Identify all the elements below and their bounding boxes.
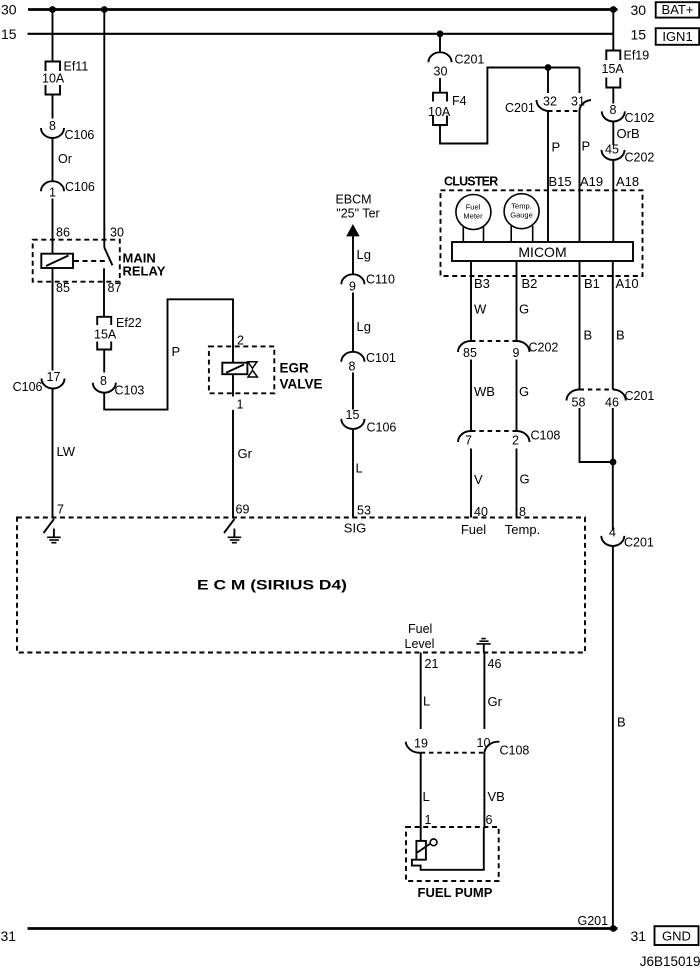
svg-text:10: 10	[477, 736, 491, 750]
svg-text:C110: C110	[366, 273, 395, 287]
svg-text:C101: C101	[366, 351, 396, 365]
svg-text:1: 1	[237, 398, 244, 412]
svg-text:1: 1	[425, 813, 432, 827]
svg-text:A10: A10	[616, 276, 639, 291]
svg-text:G: G	[520, 472, 530, 487]
svg-text:C108: C108	[531, 429, 561, 443]
svg-text:C102: C102	[625, 111, 655, 125]
svg-text:A19: A19	[580, 174, 603, 189]
svg-text:G: G	[519, 384, 529, 399]
svg-text:15: 15	[631, 26, 647, 42]
svg-text:Ef11: Ef11	[64, 60, 89, 74]
svg-text:GND: GND	[662, 929, 691, 944]
svg-text:2: 2	[512, 434, 519, 448]
svg-text:B2: B2	[522, 276, 538, 291]
svg-text:CLUSTER: CLUSTER	[444, 175, 498, 189]
svg-text:30: 30	[1, 2, 17, 18]
svg-text:L: L	[423, 789, 430, 804]
svg-text:B3: B3	[474, 276, 490, 291]
svg-text:10A: 10A	[428, 105, 451, 119]
svg-text:W: W	[474, 302, 487, 317]
svg-text:C103: C103	[115, 384, 145, 398]
svg-text:V: V	[474, 472, 483, 487]
svg-text:45: 45	[605, 143, 619, 157]
svg-text:B: B	[617, 715, 626, 730]
svg-text:C106: C106	[13, 380, 43, 394]
svg-text:P: P	[582, 139, 591, 154]
svg-text:85: 85	[56, 281, 70, 295]
svg-text:C202: C202	[625, 151, 655, 165]
svg-text:1: 1	[49, 186, 56, 200]
svg-text:Gr: Gr	[238, 446, 253, 461]
svg-text:2: 2	[237, 334, 244, 348]
svg-text:FUEL PUMP: FUEL PUMP	[418, 885, 493, 900]
svg-text:EBCM: EBCM	[335, 193, 371, 207]
svg-text:SIG: SIG	[344, 521, 366, 536]
svg-text:21: 21	[425, 657, 439, 671]
svg-text:P: P	[552, 140, 561, 155]
svg-text:86: 86	[56, 226, 70, 240]
svg-text:40: 40	[474, 505, 488, 519]
svg-text:C106: C106	[65, 128, 95, 142]
svg-text:B15: B15	[549, 174, 572, 189]
svg-text:B1: B1	[584, 276, 600, 291]
svg-text:Fuel: Fuel	[408, 622, 432, 636]
svg-text:A18: A18	[616, 174, 639, 189]
svg-text:Gauge: Gauge	[510, 211, 533, 220]
svg-text:B: B	[584, 328, 593, 343]
svg-text:Fuel: Fuel	[466, 203, 481, 212]
svg-text:G: G	[519, 302, 529, 317]
svg-text:VALVE: VALVE	[280, 377, 323, 392]
svg-text:69: 69	[236, 503, 250, 517]
svg-text:C201: C201	[455, 53, 485, 67]
svg-text:RELAY: RELAY	[123, 264, 166, 279]
svg-text:C106: C106	[65, 180, 95, 194]
svg-text:"25" Ter: "25" Ter	[336, 207, 379, 221]
svg-text:G201: G201	[578, 914, 609, 928]
svg-text:15A: 15A	[602, 62, 625, 76]
svg-text:EGR: EGR	[280, 361, 310, 376]
svg-text:BAT+: BAT+	[662, 2, 694, 17]
svg-text:8: 8	[610, 103, 617, 117]
svg-text:8: 8	[100, 374, 107, 388]
svg-text:Lg: Lg	[357, 247, 371, 262]
svg-text:10A: 10A	[42, 72, 65, 86]
svg-text:Temp.: Temp.	[511, 202, 531, 211]
svg-text:6: 6	[486, 813, 493, 827]
svg-text:E C M (SIRIUS D4): E C M (SIRIUS D4)	[197, 577, 347, 593]
svg-text:C106: C106	[367, 421, 397, 435]
svg-text:31: 31	[1, 928, 17, 944]
svg-text:Ef22: Ef22	[116, 316, 142, 330]
svg-text:Lg: Lg	[357, 319, 371, 334]
svg-text:Level: Level	[405, 637, 435, 651]
svg-text:53: 53	[357, 504, 371, 518]
svg-text:15: 15	[346, 408, 360, 422]
svg-text:32: 32	[543, 95, 557, 109]
svg-text:VB: VB	[488, 789, 505, 804]
svg-text:19: 19	[414, 737, 428, 751]
svg-text:30: 30	[631, 2, 647, 18]
svg-text:15: 15	[1, 26, 17, 42]
svg-text:15A: 15A	[94, 328, 117, 342]
svg-text:85: 85	[463, 346, 477, 360]
svg-text:LW: LW	[57, 444, 76, 459]
svg-text:7: 7	[465, 434, 472, 448]
svg-text:31: 31	[631, 928, 647, 944]
svg-text:87: 87	[108, 281, 122, 295]
svg-text:L: L	[356, 461, 363, 476]
svg-text:B: B	[616, 328, 625, 343]
svg-text:8: 8	[519, 505, 526, 519]
svg-text:IGN1: IGN1	[662, 29, 692, 44]
svg-text:17: 17	[47, 370, 61, 384]
svg-text:C108: C108	[500, 744, 530, 758]
svg-text:P: P	[172, 344, 181, 359]
svg-text:9: 9	[513, 346, 520, 360]
svg-text:46: 46	[488, 657, 502, 671]
svg-text:C201: C201	[624, 536, 654, 550]
svg-text:C201: C201	[505, 101, 535, 115]
svg-text:Fuel: Fuel	[461, 522, 486, 537]
svg-text:WB: WB	[474, 384, 495, 399]
svg-text:30: 30	[434, 65, 448, 79]
svg-text:8: 8	[349, 360, 356, 374]
svg-text:4: 4	[609, 526, 616, 540]
svg-text:31: 31	[571, 95, 585, 109]
svg-text:Or: Or	[58, 152, 72, 166]
svg-text:46: 46	[605, 396, 619, 410]
svg-text:8: 8	[49, 119, 56, 133]
svg-text:58: 58	[572, 396, 586, 410]
svg-text:OrB: OrB	[617, 126, 640, 141]
svg-text:F4: F4	[452, 94, 467, 108]
svg-text:J6B15019: J6B15019	[640, 954, 700, 969]
svg-text:9: 9	[349, 280, 356, 294]
svg-text:Gr: Gr	[488, 694, 503, 709]
svg-text:L: L	[423, 694, 430, 709]
svg-text:30: 30	[110, 226, 124, 240]
svg-text:7: 7	[57, 503, 64, 517]
svg-text:Meter: Meter	[463, 212, 483, 221]
svg-text:C201: C201	[625, 389, 655, 403]
svg-text:C202: C202	[529, 341, 559, 355]
svg-text:MICOM: MICOM	[518, 244, 566, 260]
svg-text:Temp.: Temp.	[505, 522, 540, 537]
svg-text:Ef19: Ef19	[624, 49, 650, 63]
